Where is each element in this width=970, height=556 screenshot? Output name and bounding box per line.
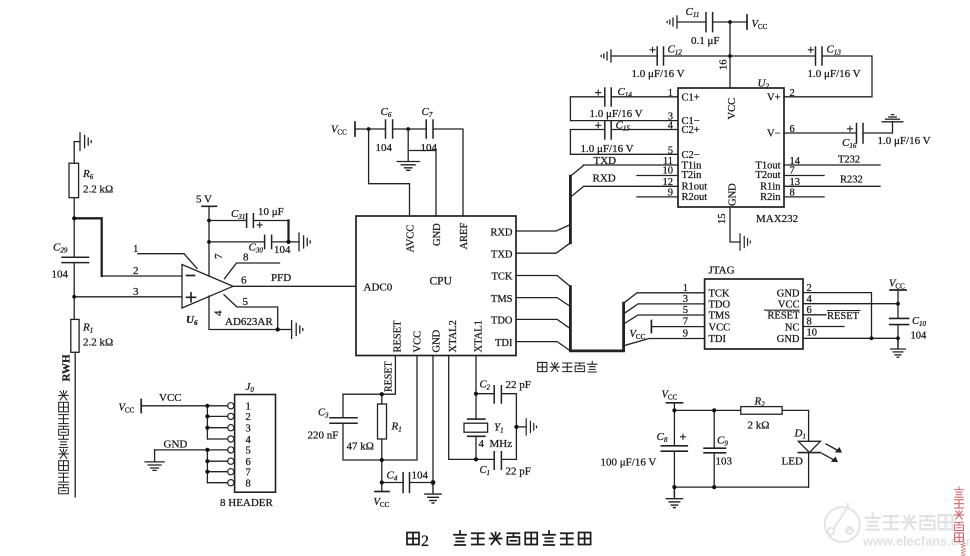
svg-text:RESET: RESET <box>767 311 800 322</box>
svg-text:7: 7 <box>246 468 251 479</box>
svg-text:V−: V− <box>767 129 781 140</box>
svg-text:GND: GND <box>777 288 800 299</box>
svg-text:8: 8 <box>807 317 812 328</box>
svg-text:LED: LED <box>782 456 803 468</box>
svg-text:22 pF: 22 pF <box>506 379 531 391</box>
svg-text:C6: C6 <box>381 106 392 119</box>
svg-text:T2out: T2out <box>755 170 780 181</box>
svg-text:2 kΩ: 2 kΩ <box>748 420 770 432</box>
svg-text:1.0 μF/16 V: 1.0 μF/16 V <box>590 108 643 120</box>
svg-text:TDI: TDI <box>709 334 727 345</box>
svg-text:XTAL2: XTAL2 <box>448 320 459 352</box>
svg-text:VCC: VCC <box>159 392 182 404</box>
svg-text:5: 5 <box>683 305 688 316</box>
svg-text:T232: T232 <box>838 155 860 166</box>
svg-text:C9: C9 <box>717 435 728 448</box>
svg-text:1: 1 <box>133 243 139 255</box>
svg-text:2: 2 <box>807 283 812 294</box>
svg-text:4: 4 <box>213 310 225 316</box>
svg-text:9: 9 <box>668 188 673 199</box>
svg-text:104: 104 <box>376 142 393 154</box>
svg-text:TDI: TDI <box>495 338 513 349</box>
svg-text:RESET: RESET <box>393 320 404 353</box>
svg-text:10: 10 <box>663 166 674 177</box>
svg-text:J0: J0 <box>246 381 255 394</box>
svg-text:www.elecfans.com: www.elecfans.com <box>862 534 970 549</box>
svg-text:NC: NC <box>785 322 800 333</box>
svg-text:2: 2 <box>133 265 139 277</box>
svg-text:GND: GND <box>728 183 739 206</box>
svg-text:RESET: RESET <box>384 361 395 392</box>
svg-text:1: 1 <box>668 88 673 99</box>
svg-text:U2: U2 <box>758 78 770 91</box>
svg-text:C10: C10 <box>912 316 927 328</box>
svg-text:TCK: TCK <box>492 272 513 283</box>
svg-text:R1out: R1out <box>682 181 708 192</box>
svg-text:4: 4 <box>246 435 252 446</box>
svg-text:RXD: RXD <box>490 227 513 238</box>
svg-text:RXD: RXD <box>593 173 616 185</box>
svg-text:6: 6 <box>790 124 795 135</box>
svg-text:1.0 μF/16 V: 1.0 μF/16 V <box>808 68 861 80</box>
svg-text:3: 3 <box>133 286 139 298</box>
svg-text:R1: R1 <box>391 421 402 434</box>
svg-text:9: 9 <box>683 329 688 340</box>
svg-text:R2out: R2out <box>682 192 708 203</box>
svg-text:JTAG: JTAG <box>709 265 735 277</box>
svg-text:C11: C11 <box>686 6 700 19</box>
svg-text:VCC: VCC <box>374 497 390 509</box>
svg-text:C13: C13 <box>827 44 842 57</box>
svg-text:5: 5 <box>668 145 673 156</box>
svg-text:2: 2 <box>790 88 795 99</box>
svg-text:VCC: VCC <box>889 279 905 291</box>
svg-text:C2+: C2+ <box>682 125 700 136</box>
svg-text:TMS: TMS <box>491 294 513 305</box>
svg-text:VCC: VCC <box>709 322 731 333</box>
svg-text:5: 5 <box>243 296 249 308</box>
svg-text:VCC: VCC <box>119 403 135 415</box>
svg-text:1.0 μF/16 V: 1.0 μF/16 V <box>581 143 634 155</box>
svg-text:GND: GND <box>432 223 443 246</box>
svg-text:C2: C2 <box>480 380 491 392</box>
svg-text:C30: C30 <box>249 242 264 255</box>
svg-text:GND: GND <box>777 334 800 345</box>
svg-text:C1+: C1+ <box>682 92 700 103</box>
svg-text:C29: C29 <box>53 242 68 255</box>
svg-text:C8: C8 <box>657 431 668 444</box>
svg-text:7: 7 <box>213 253 225 259</box>
svg-text:6: 6 <box>807 305 812 316</box>
svg-text:104: 104 <box>52 269 69 281</box>
svg-text:10: 10 <box>807 328 818 339</box>
svg-text:VCC: VCC <box>727 98 738 120</box>
svg-text:PFD: PFD <box>271 272 291 284</box>
svg-text:5: 5 <box>246 446 251 457</box>
svg-text:MAX232: MAX232 <box>756 213 798 225</box>
svg-text:C12: C12 <box>668 44 683 57</box>
svg-text:C2−: C2− <box>682 150 700 161</box>
svg-text:TCK: TCK <box>709 288 730 299</box>
svg-text:6: 6 <box>241 275 247 287</box>
svg-text:8 HEADER: 8 HEADER <box>220 497 274 509</box>
svg-text:103: 103 <box>716 456 733 468</box>
svg-text:4: 4 <box>479 438 485 450</box>
svg-text:CPU: CPU <box>430 276 453 288</box>
svg-text:4: 4 <box>807 294 813 305</box>
svg-text:MHz: MHz <box>490 438 513 450</box>
svg-text:C15: C15 <box>616 120 631 133</box>
svg-text:10 μF: 10 μF <box>258 206 284 218</box>
svg-text:8: 8 <box>790 188 795 199</box>
svg-text:12: 12 <box>663 177 674 188</box>
svg-text:13: 13 <box>790 177 801 188</box>
svg-text:VCC: VCC <box>778 300 800 311</box>
svg-text:7: 7 <box>683 317 688 328</box>
svg-text:RWH: RWH <box>61 354 73 382</box>
svg-text:16: 16 <box>719 60 730 71</box>
svg-text:XTAL1: XTAL1 <box>474 320 485 352</box>
svg-text:VCC: VCC <box>331 125 347 137</box>
svg-text:GND: GND <box>432 329 443 352</box>
svg-text:8: 8 <box>243 252 249 264</box>
svg-text:C7: C7 <box>422 106 433 119</box>
svg-text:VCC: VCC <box>413 331 424 353</box>
svg-text:U6: U6 <box>186 314 198 327</box>
svg-text:5 V: 5 V <box>196 194 212 206</box>
svg-text:47 kΩ: 47 kΩ <box>347 441 374 453</box>
svg-text:TMS: TMS <box>709 311 731 322</box>
svg-text:104: 104 <box>274 244 291 256</box>
svg-text:C1: C1 <box>480 465 491 477</box>
svg-text:104: 104 <box>421 142 438 154</box>
svg-text:2.2 kΩ: 2.2 kΩ <box>83 184 113 196</box>
svg-text:2: 2 <box>246 412 251 423</box>
svg-text:15: 15 <box>717 214 728 225</box>
svg-text:220 nF: 220 nF <box>308 430 339 442</box>
svg-text:3: 3 <box>683 294 688 305</box>
svg-text:VCC: VCC <box>662 390 678 402</box>
svg-text:1.0 μF/16 V: 1.0 μF/16 V <box>878 135 931 147</box>
svg-text:100 μF/16 V: 100 μF/16 V <box>601 457 657 469</box>
svg-text:TXD: TXD <box>594 155 617 167</box>
svg-text:GND: GND <box>164 439 188 451</box>
svg-text:D1: D1 <box>794 428 806 441</box>
svg-text:AD623AR: AD623AR <box>225 316 273 328</box>
svg-text:R6: R6 <box>82 168 94 181</box>
svg-text:AREF: AREF <box>459 223 470 250</box>
svg-text:ADC0: ADC0 <box>364 282 393 294</box>
svg-text:AVCC: AVCC <box>406 225 417 253</box>
svg-text:1.0 μF/16 V: 1.0 μF/16 V <box>632 68 685 80</box>
svg-text:6: 6 <box>246 457 251 468</box>
svg-text:R232: R232 <box>840 175 863 186</box>
svg-text:2.2 kΩ: 2.2 kΩ <box>83 337 113 349</box>
svg-text:TDO: TDO <box>709 300 731 311</box>
svg-text:www.elecfans.com: www.elecfans.com <box>959 542 968 556</box>
svg-text:TXD: TXD <box>491 250 513 261</box>
svg-text:22 pF: 22 pF <box>506 466 531 478</box>
svg-text:RESET: RESET <box>827 311 860 322</box>
svg-text:VCC: VCC <box>630 329 646 341</box>
svg-text:Y1: Y1 <box>494 422 504 435</box>
svg-text:4: 4 <box>668 121 674 132</box>
svg-text:R2: R2 <box>754 396 766 409</box>
svg-text:T2in: T2in <box>682 170 703 181</box>
svg-text:R1in: R1in <box>760 181 781 192</box>
svg-text:V+: V+ <box>767 92 781 103</box>
svg-text:8: 8 <box>246 479 251 490</box>
svg-text:R1: R1 <box>82 322 93 335</box>
svg-text:104: 104 <box>911 331 928 342</box>
svg-text:C16: C16 <box>842 137 857 150</box>
svg-text:C3: C3 <box>318 408 329 420</box>
svg-text:3: 3 <box>246 424 251 435</box>
svg-text:C14: C14 <box>618 86 633 99</box>
svg-text:104: 104 <box>412 470 429 482</box>
svg-text:1: 1 <box>246 402 251 413</box>
svg-text:2: 2 <box>421 533 429 550</box>
svg-text:C4: C4 <box>387 470 398 483</box>
svg-text:1: 1 <box>683 283 688 294</box>
svg-text:R2in: R2in <box>760 192 781 203</box>
svg-text:7: 7 <box>790 166 795 177</box>
svg-text:TDO: TDO <box>491 316 513 327</box>
svg-text:0.1 μF: 0.1 μF <box>691 35 720 47</box>
svg-text:C31: C31 <box>231 208 245 221</box>
svg-text:VCC: VCC <box>752 19 768 31</box>
